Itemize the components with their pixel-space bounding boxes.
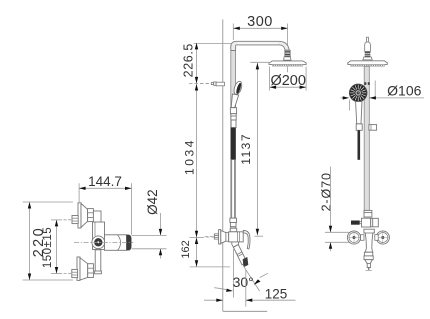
rain head spray band (right view) — [351, 64, 385, 66]
top inlet centerline — [64, 219, 73, 221]
top wall escutcheon disc (left view) — [78, 203, 81, 228]
svg-text:144.7: 144.7 — [88, 174, 122, 189]
dimension 1137 line — [250, 62, 268, 236]
top pin — [367, 37, 369, 42]
top union nut — [88, 209, 94, 222]
valve escutcheon cone (middle view) — [221, 231, 226, 244]
riser pipe (middle view) — [231, 45, 236, 229]
dimension 226.5 arrows — [195, 43, 198, 84]
svg-text:Ø42: Ø42 — [145, 189, 160, 215]
spout nut — [364, 252, 373, 259]
dimension Ø42 line — [132, 213, 167, 259]
dimension 300 arrows — [233, 27, 287, 30]
rain shower head (right view) — [348, 61, 388, 65]
top connector block — [93, 211, 101, 223]
wall reference line — [222, 19, 224, 311]
valve body inner lines — [94, 222, 96, 236]
svg-text:1034: 1034 — [183, 138, 197, 175]
rain head spray band — [272, 64, 302, 66]
bottom hex nut — [72, 269, 78, 277]
svg-text:150±15: 150±15 — [42, 227, 54, 268]
cylinder centerline — [74, 241, 134, 243]
svg-text:300: 300 — [247, 14, 273, 30]
dimension 220 arrows — [28, 202, 31, 280]
dimension 226.5 line — [189, 43, 231, 84]
bottom union nut — [88, 264, 94, 278]
dimension 2-Ø70 arrows — [329, 226, 332, 249]
pipe bottom connector nut — [364, 210, 372, 217]
hand shower head (middle view, edge-on) — [233, 80, 244, 95]
hose bottom coupling — [230, 218, 237, 227]
spout taper — [365, 260, 372, 264]
valve lever handle (middle view) — [243, 230, 250, 249]
left handle circle — [347, 231, 360, 244]
30° vertical reference line — [233, 249, 235, 298]
spout bottom centerline — [365, 270, 372, 272]
arm capsule threads — [365, 52, 371, 56]
valve hex nut (middle view) — [214, 234, 218, 239]
head connector threads — [285, 51, 290, 56]
head ball joint — [284, 57, 291, 60]
dimension 162 arrows — [195, 238, 198, 267]
bottom inlet centerline — [64, 273, 72, 275]
30° leader arrow right — [254, 273, 268, 285]
dimension Ø200 arrows — [270, 86, 307, 89]
dimension 1137 arrows — [256, 63, 259, 235]
rain shower head (middle view) — [269, 61, 306, 65]
valve body seams — [238, 232, 240, 242]
hose (right view) — [357, 130, 360, 160]
spout tip pin — [368, 268, 369, 270]
dimension 1034 line — [190, 84, 219, 237]
dimension 144.7 arrows — [79, 187, 131, 190]
riser pipe (right view) — [364, 66, 369, 214]
arm inner highlight line — [238, 42, 278, 44]
spout tip — [367, 263, 370, 267]
diverter body — [362, 218, 371, 227]
top escutcheon cone — [81, 204, 88, 228]
spout neck (middle view) — [232, 242, 239, 247]
dimension 150±15 arrows — [55, 220, 58, 274]
slider bracket left block — [356, 124, 362, 130]
dimension Ø106 arrows — [343, 96, 376, 99]
dimension Ø42 arrows — [159, 229, 162, 255]
bottom foot band — [95, 271, 102, 274]
cylinder dark end cap — [127, 235, 132, 251]
dimension 144.7 line — [79, 183, 131, 235]
svg-text:162: 162 — [180, 240, 192, 258]
spout aerator tip dark — [243, 257, 249, 267]
diverter dark knob — [351, 221, 360, 225]
dimension Ø106 line — [341, 81, 425, 111]
dimension 125 line — [204, 299, 296, 301]
right handle circle — [376, 231, 389, 244]
svg-text:Ø106: Ø106 — [387, 82, 421, 98]
horizontal cartridge cylinder — [105, 235, 127, 251]
holder clamp marks — [364, 82, 369, 85]
arm end capsule — [365, 42, 371, 51]
valve union bands (middle view) — [226, 233, 229, 242]
arm flange cone — [363, 57, 372, 60]
handle stems — [361, 235, 379, 241]
valve vertical body (left view) — [93, 222, 105, 250]
hose lower thin run — [232, 160, 235, 219]
svg-text:1137: 1137 — [239, 133, 253, 165]
valve centerline dashes (middle view) — [205, 236, 215, 238]
diverter right block — [371, 218, 379, 227]
hose upper dark segment — [231, 128, 236, 160]
spout tip extension line — [245, 270, 247, 307]
valve body (middle view) — [229, 232, 244, 242]
top hex nut — [72, 216, 78, 224]
valve inlet nut (middle view) — [230, 228, 237, 232]
svg-text:2-Ø70: 2-Ø70 — [319, 172, 333, 211]
dimension 162 line — [190, 238, 230, 267]
bottom wall escutcheon disc (left view) — [77, 257, 80, 280]
diverter knob stem — [360, 221, 362, 223]
down pipe to bottom inlet — [95, 250, 101, 272]
floor reference line — [223, 310, 267, 312]
dimension 150±15 line — [51, 220, 62, 274]
svg-text:30°: 30° — [233, 274, 254, 290]
slider knob inner line — [370, 125, 372, 131]
spout mid band — [237, 252, 243, 256]
svg-text:226.5: 226.5 — [181, 43, 195, 77]
bottom escutcheon cone — [80, 258, 88, 280]
dimension 300 line — [233, 24, 287, 60]
hand shower holder knob (middle view) — [211, 82, 224, 86]
dimension 125 arrows — [216, 299, 252, 302]
dimension 220 line — [23, 202, 73, 280]
head threaded connector — [285, 50, 290, 57]
slider bracket right knob — [369, 125, 377, 131]
valve escutcheon disc (middle view) — [219, 230, 221, 244]
cylinder inner arc — [118, 235, 121, 250]
hose coupling nut — [230, 108, 236, 128]
valve circle dark core — [94, 238, 102, 246]
hand shower face (right view) — [349, 84, 367, 102]
dimension 1034 arrows — [195, 84, 198, 237]
dimension Ø200 line — [270, 67, 307, 91]
mixer body shoulder line — [364, 232, 374, 234]
shower arm bent tube — [231, 41, 289, 50]
hand shower handle (right view) — [356, 102, 362, 124]
valve circle (cartridge cap) — [92, 236, 105, 249]
mixer body (right view front) — [364, 229, 374, 252]
svg-text:125: 125 — [265, 287, 288, 302]
hand shower handle (middle view) — [231, 94, 239, 108]
head centerline below — [287, 66, 289, 72]
spout axis extension line — [244, 266, 260, 291]
holder centerline dashes — [200, 83, 211, 85]
dimension 2-Ø70 line — [325, 167, 351, 252]
30° arc arrow left — [214, 288, 233, 292]
tub spout angled (middle view) — [233, 245, 247, 265]
